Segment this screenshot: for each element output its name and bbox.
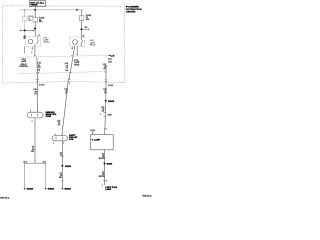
svg-text:S301: S301 <box>107 164 113 166</box>
svg-text:CON: CON <box>69 139 74 141</box>
svg-text:1: 1 <box>37 110 38 112</box>
svg-text:G303: G303 <box>64 188 70 190</box>
svg-text:30: 30 <box>83 36 85 38</box>
svg-text:G302: G302 <box>48 188 54 190</box>
stub wire into lamp box <box>92 132 94 135</box>
svg-text:(GY): (GY) <box>108 61 112 63</box>
svg-text:S300: S300 <box>108 101 114 103</box>
inline connector P1 (pill) <box>28 112 44 118</box>
svg-text:S301: S301 <box>65 166 71 168</box>
svg-text:2: 2 <box>102 185 103 187</box>
wire label Z1 <box>60 152 62 156</box>
fuse F2 label <box>39 17 45 23</box>
wire: fuse F1 drop <box>24 10 26 16</box>
fog lamp component box <box>91 135 114 150</box>
relay K1 coil bottom stub <box>23 47 25 54</box>
wire: F1 to relay coil <box>24 21 26 37</box>
wire: ground drop mid <box>45 163 47 187</box>
splice bar horizontal <box>24 162 47 164</box>
pin tick mid wire at line A <box>71 54 73 56</box>
pin tick left wire at line B <box>36 72 38 74</box>
wire label block T3 <box>65 63 69 72</box>
wire: left control drop <box>36 57 39 81</box>
svg-text:20A: 20A <box>86 18 90 21</box>
connector line C-A end label <box>109 55 110 56</box>
pin tick left wire at line A <box>34 55 36 57</box>
wire label Z1 below box <box>99 154 106 160</box>
wire label Z1 lower right <box>99 172 106 178</box>
bus arrow segment left <box>21 29 33 31</box>
relay K2 contact <box>81 37 83 46</box>
svg-text:F35: F35 <box>84 27 87 29</box>
splice S301 right <box>104 163 106 165</box>
wire: F3 to relay K2 <box>81 21 83 38</box>
relay K1 dashed box <box>26 37 41 47</box>
arrowhead right <box>33 30 35 32</box>
svg-text:Z112: Z112 <box>23 161 27 163</box>
svg-text:BK/OR: BK/OR <box>99 176 106 178</box>
svg-text:RELAY: RELAY <box>43 41 50 44</box>
connector line C-B dashed <box>18 72 106 74</box>
svg-text:20A: 20A <box>39 20 43 23</box>
connector line C-B end label <box>104 71 106 73</box>
fuse F1 <box>23 16 28 21</box>
svg-text:LAMP: LAMP <box>94 139 101 142</box>
svg-text:2 C100: 2 C100 <box>90 130 96 132</box>
wire: right output drop <box>105 65 107 101</box>
svg-text:2: 2 <box>30 110 31 112</box>
relay K1 contact <box>35 37 39 47</box>
svg-text:(14): (14) <box>108 57 112 60</box>
splice S301 <box>61 165 63 167</box>
wire label L39 mid <box>64 88 68 94</box>
arrowhead left <box>19 30 20 32</box>
wire label block T4 <box>74 60 80 67</box>
tick + pin on main wire <box>104 128 106 130</box>
wire: below splice <box>105 101 106 135</box>
ground G302 mid <box>45 188 47 190</box>
component label: left fog lamp <box>105 187 117 191</box>
relay K1 label <box>43 37 50 43</box>
svg-text:87: 87 <box>72 48 74 50</box>
svg-text:1: 1 <box>106 129 107 131</box>
svg-text:RELAY: RELAY <box>90 43 97 46</box>
svg-text:8W-50-2: 8W-50-2 <box>0 198 9 200</box>
svg-text:2: 2 <box>32 120 33 122</box>
svg-text:8W-50-2: 8W-50-2 <box>143 196 152 198</box>
svg-text:2: 2 <box>106 180 107 182</box>
relay K1 coil <box>28 39 33 44</box>
fuse F3 <box>79 16 84 21</box>
svg-text:CONTROL: CONTROL <box>19 66 29 68</box>
wire: mid circuit diagonal upper <box>68 73 70 82</box>
wire label Z1 lower <box>31 147 35 153</box>
junction dot on bus <box>34 9 36 11</box>
fuse F1 label <box>28 16 34 22</box>
relay K2 dashed box <box>70 37 85 46</box>
fuse F2 <box>33 17 38 22</box>
wire: left drop below PDC <box>36 81 38 112</box>
pin tick mid wire at line B <box>69 72 71 74</box>
wire label L96 mid <box>33 89 37 95</box>
hot-at-all-times box B1 <box>30 1 46 7</box>
svg-text:1: 1 <box>63 142 64 144</box>
wire label L39 <box>103 88 107 94</box>
wire: P2 down <box>61 141 63 187</box>
PDC label <box>126 7 142 14</box>
fuse F3 label <box>86 15 92 21</box>
wire label: circuit L96 <box>38 63 41 72</box>
wire: K2 coil down (diagonal) <box>70 46 74 72</box>
junction dot on bus <box>24 9 25 10</box>
tick <box>61 156 63 158</box>
svg-text:2 C110: 2 C110 <box>108 85 113 87</box>
wire: fuse F2 drop <box>34 10 36 17</box>
svg-text:CENTER: CENTER <box>126 12 136 14</box>
svg-text:LAMP: LAMP <box>105 188 112 191</box>
svg-text:1: 1 <box>62 134 63 136</box>
junction dot at relay K1 top pin <box>24 35 26 37</box>
wire: left feed bus <box>19 9 84 11</box>
svg-text:C100: C100 <box>108 115 112 117</box>
junction dot right <box>80 28 82 30</box>
wire: K2 contact stub <box>76 46 78 55</box>
wire: F2 down to relay <box>34 22 36 37</box>
svg-text:87: 87 <box>32 48 34 50</box>
relay K2 coil <box>73 40 78 45</box>
svg-text:30: 30 <box>38 35 40 37</box>
tick at right wire top <box>105 64 107 66</box>
tick + pin <box>103 180 105 182</box>
wire label above pill P2 <box>57 120 61 126</box>
bus arrow segment right <box>81 28 88 30</box>
wire: bus from hot box <box>34 7 36 10</box>
wire label: fog lamp relay control <box>19 59 29 68</box>
svg-text:TIMES: TIMES <box>30 5 38 7</box>
svg-text:2: 2 <box>69 83 70 85</box>
junction dot <box>34 28 36 30</box>
lamp box internal dot + label <box>92 139 94 141</box>
connector line C-A dashed <box>18 55 107 57</box>
pin tick stub at line A <box>76 54 78 56</box>
svg-text:LAMP: LAMP <box>21 60 27 63</box>
svg-text:18: 18 <box>60 154 62 156</box>
svg-text:FEED: FEED <box>74 65 80 67</box>
connector label at PDC exit <box>105 79 108 81</box>
wire label L39 lower <box>101 107 105 113</box>
splice S300 <box>105 100 107 102</box>
svg-text:85: 85 <box>24 38 26 40</box>
wire: P1 to splice bar <box>34 118 36 163</box>
wire: lamp box down <box>103 150 105 185</box>
inline connector C100 ticks <box>104 112 107 114</box>
inline connector P2 (pill) <box>52 136 68 141</box>
svg-text:10A: 10A <box>28 19 32 22</box>
svg-text:G302: G302 <box>27 188 33 190</box>
P2 component label <box>69 135 78 141</box>
svg-text:4: 4 <box>38 71 39 74</box>
wire label block T5 <box>103 64 107 71</box>
svg-text:CONN: CONN <box>46 116 52 118</box>
svg-text:BK/OR: BK/OR <box>99 158 106 160</box>
relay K2 label <box>90 40 97 46</box>
svg-text:3: 3 <box>31 52 32 54</box>
ground G303 <box>61 188 63 190</box>
P1 component label <box>46 112 57 118</box>
svg-text:C3: C3 <box>110 55 114 57</box>
tick <box>61 180 63 182</box>
wire: ground drop left <box>24 163 26 187</box>
wire: relay K1 output <box>34 47 36 57</box>
wire: mid circuit diagonal lower <box>62 81 68 135</box>
power distribution center dashed boundary <box>3 6 125 83</box>
arrowhead <box>88 28 90 30</box>
connector C109 ticks <box>36 79 39 81</box>
junction dot <box>24 29 26 31</box>
ground G302 left <box>24 188 26 190</box>
right bus junction dot <box>76 9 78 11</box>
svg-text:2 C109: 2 C109 <box>39 84 45 86</box>
svg-text:Z112: Z112 <box>43 161 47 163</box>
wire: F3 drop <box>81 10 83 16</box>
wire label Z1 lower <box>59 173 62 179</box>
